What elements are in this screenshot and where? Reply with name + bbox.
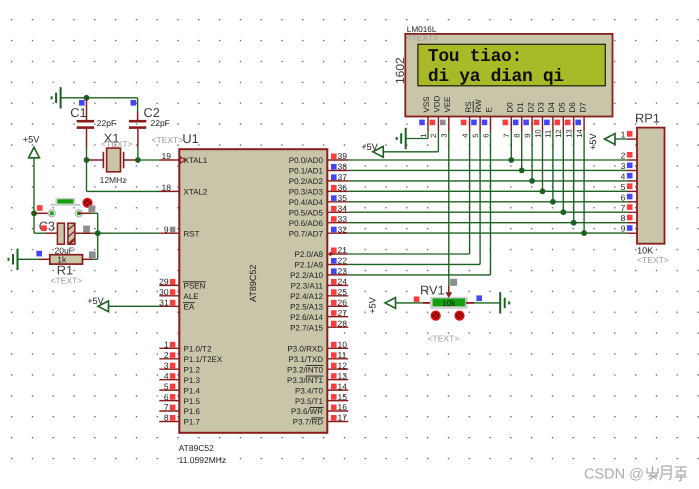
svg-text:E: E — [485, 107, 494, 112]
svg-text:P2.5/A13: P2.5/A13 — [290, 303, 323, 312]
svg-text:RW: RW — [474, 99, 483, 113]
ground (LCD VSS) — [397, 128, 406, 149]
svg-text:P1.0/T2: P1.0/T2 — [184, 345, 213, 354]
U1 pin 39 (P0.0/AD0) stub, number, state square — [327, 151, 348, 161]
svg-text:VEE: VEE — [443, 96, 452, 112]
wire LCD D3 vertical tap — [542, 132, 544, 192]
wire LCD D6 vertical tap — [573, 132, 575, 223]
U1 pin name RST — [184, 229, 200, 238]
junction node D7 — [581, 230, 587, 236]
button actuator symbol — [83, 199, 91, 207]
U1 pin name P1.4 — [184, 386, 201, 395]
svg-text:EA: EA — [184, 303, 195, 312]
C2 state square — [131, 100, 137, 106]
U1 pin name P2.4/A12 — [290, 292, 323, 301]
RP1 reference label — [635, 111, 660, 126]
U1 pin 10 (P3.0/RXD) stub, number, state square — [327, 340, 348, 350]
svg-text:P1.3: P1.3 — [184, 376, 201, 385]
svg-text:XTAL2: XTAL2 — [184, 188, 208, 197]
svg-text:4: 4 — [164, 371, 169, 381]
C1 top lead — [86, 98, 88, 120]
U1 pin 38 (P0.1/AD1) stub, number, state square — [327, 162, 348, 172]
RV1 left lead and state square — [396, 296, 430, 303]
svg-text:ALE: ALE — [184, 292, 199, 301]
RP1 pin 1 stub, number, state square — [621, 130, 637, 140]
U1 pin 25 (P2.4/A12) stub, number, state square — [327, 287, 348, 297]
junction node D0 — [508, 157, 514, 163]
U1 pin name P0.7/AD7 — [289, 229, 324, 238]
RV1 reference label — [420, 283, 445, 298]
LCD pin label E — [485, 107, 494, 112]
svg-text:8: 8 — [164, 413, 169, 423]
wire P0.1 row: U1 pin 38 to RP1 pin 3 — [348, 169, 627, 171]
U1 pin name P3.4/T0 — [295, 386, 324, 395]
svg-text:13: 13 — [338, 371, 348, 381]
U1 pin 15 (P3.5/T1) stub, number, state square — [327, 392, 348, 402]
microcontroller U1 AT89C52 body — [179, 149, 327, 433]
LCD reference 1602 rotated — [393, 57, 407, 84]
C3 left lead — [46, 232, 57, 234]
svg-text:di ya dian qi: di ya dian qi — [428, 67, 564, 87]
svg-text:16: 16 — [338, 402, 348, 412]
svg-text:2: 2 — [164, 350, 169, 360]
U1 pin name P3.0/RXD — [287, 345, 323, 354]
LCD pin label D1 — [516, 102, 525, 113]
RP1 pin 2 stub, number, state square — [621, 151, 637, 161]
svg-text:6: 6 — [164, 392, 169, 402]
RP1 pin 7 stub, number, state square — [621, 203, 637, 213]
svg-text:17: 17 — [338, 413, 348, 423]
svg-text:29: 29 — [159, 277, 169, 287]
svg-text:P2.3/A11: P2.3/A11 — [291, 282, 324, 291]
svg-text:23: 23 — [338, 266, 348, 276]
svg-text:9: 9 — [621, 224, 626, 234]
wire LCD VDD to +5V — [383, 132, 438, 152]
svg-text:1: 1 — [164, 340, 169, 350]
U1 pin 29 (PSEN) stub, number, state square — [159, 277, 179, 287]
svg-text:RS: RS — [464, 101, 473, 112]
U1 pin 35 (P0.4/AD4) stub, number, state square — [327, 193, 348, 203]
svg-text:P3.5/T1: P3.5/T1 — [295, 397, 324, 406]
svg-text:+5V: +5V — [588, 133, 598, 150]
svg-text:P2.2/A10: P2.2/A10 — [290, 271, 323, 280]
U1 pin name P0.2/AD2 — [289, 177, 324, 186]
wire LCD D1 vertical tap — [521, 132, 523, 171]
RV1 hidden text label — [428, 333, 460, 343]
svg-text:22: 22 — [338, 256, 348, 266]
svg-text:3: 3 — [440, 134, 449, 138]
capacitor C2 — [129, 120, 146, 129]
LCD pin 11 (D4) stub, number, state square — [544, 117, 553, 138]
C2 bottom lead — [137, 129, 139, 160]
svg-text:P2.0/A8: P2.0/A8 — [295, 250, 324, 259]
LCD pin 9 (D2) stub, number, state square — [523, 117, 532, 138]
U1 pin 3 (P1.2) stub, number, state square — [159, 360, 179, 370]
U1 pin 32 (P0.7/AD7) stub, number, state square — [327, 224, 348, 234]
svg-text:15: 15 — [338, 392, 348, 402]
U1 pin name P3.3/INT1 — [287, 376, 324, 385]
LCD hidden text label — [407, 32, 439, 42]
LCD pin 5 (RW) stub, number, state square — [471, 117, 480, 138]
svg-text:4: 4 — [460, 134, 469, 138]
wire P0.4 row: U1 pin 35 to RP1 pin 6 — [348, 201, 627, 203]
LCD pin 2 (VDD) stub, number, state square — [429, 117, 438, 138]
LCD pin label RW — [474, 99, 483, 113]
RV1 wiper arrow and state square — [445, 279, 457, 298]
U1 pin 36 (P0.3/AD3) stub, number, state square — [327, 183, 348, 193]
U1 pin name EA — [183, 303, 195, 312]
svg-text:9: 9 — [164, 224, 169, 234]
svg-text:2: 2 — [429, 134, 438, 138]
U1 pin name P3.1/TXD — [288, 355, 323, 364]
svg-text:+5V: +5V — [361, 142, 378, 152]
svg-text:1: 1 — [419, 134, 428, 138]
svg-text:4: 4 — [621, 171, 626, 181]
U1 pin 6 (P1.5) stub, number, state square — [159, 392, 179, 402]
U1 pin name P2.6/A14 — [290, 313, 323, 322]
U1 pin name P1.3 — [184, 376, 201, 385]
svg-text:24: 24 — [338, 277, 348, 287]
U1 pin name P1.5 — [184, 397, 201, 406]
svg-text:27: 27 — [338, 308, 348, 318]
svg-text:<TEXT>: <TEXT> — [637, 255, 669, 265]
power +5V (reset circuit) — [23, 134, 40, 158]
svg-text:10: 10 — [533, 129, 542, 137]
LCD pin 14 (D7) stub, number, state square — [575, 117, 584, 138]
svg-text:22pF: 22pF — [151, 118, 170, 128]
svg-text:P3.1/TXD: P3.1/TXD — [288, 355, 323, 364]
svg-text:>: > — [123, 175, 128, 185]
wire P0.2 row: U1 pin 37 to RP1 pin 4 — [348, 180, 627, 182]
R1 reference label — [57, 262, 73, 277]
svg-text:P2.1/A9: P2.1/A9 — [295, 261, 324, 270]
svg-text:1602: 1602 — [393, 57, 407, 84]
wire P0.0 row: U1 pin 39 to RP1 pin 2 — [348, 159, 627, 161]
svg-text:P1.2: P1.2 — [184, 365, 201, 374]
C1 bottom lead — [86, 129, 88, 160]
U1 pin name P3.6/WR — [291, 407, 324, 416]
svg-text:14: 14 — [575, 129, 584, 137]
svg-text:5: 5 — [471, 134, 480, 138]
LCD pin label D5 — [558, 102, 567, 113]
svg-text:<TEXT>: <TEXT> — [101, 139, 133, 149]
wire P2.2 row: U1 pin 23 to LCD E — [348, 132, 490, 275]
junction node D2 — [529, 178, 535, 184]
U1 pin name P0.3/AD3 — [289, 188, 324, 197]
wire EA to +5V — [109, 305, 161, 307]
LCD pin label D7 — [578, 102, 587, 113]
svg-text:+5V: +5V — [87, 296, 104, 306]
wire LCD D4 vertical tap — [552, 132, 554, 202]
svg-text:11: 11 — [338, 350, 347, 360]
svg-text:P2.4/A12: P2.4/A12 — [290, 292, 323, 301]
svg-text:D4: D4 — [547, 102, 556, 113]
wire P2.1 row: U1 pin 22 to LCD RW — [348, 132, 480, 265]
svg-text:25: 25 — [338, 287, 348, 297]
svg-text:P1.6: P1.6 — [184, 407, 201, 416]
U1 pin name P2.1/A9 — [295, 261, 324, 270]
svg-text:30: 30 — [159, 287, 169, 297]
X1 right lead — [124, 159, 138, 161]
C3 state square — [41, 225, 47, 231]
LCD pin 7 (D0) stub, number, state square — [502, 117, 511, 138]
wire P0.6 row: U1 pin 33 to RP1 pin 8 — [348, 222, 627, 224]
U1 pin 14 (P3.4/T0) stub, number, state square — [327, 381, 348, 391]
wire button/C3 right vertical to RST and R1 — [97, 213, 99, 259]
overline on RW label — [472, 101, 474, 113]
svg-text:2: 2 — [621, 151, 626, 161]
svg-text:P1.7: P1.7 — [184, 418, 201, 427]
U1 pin name XTAL2 — [184, 188, 208, 197]
capacitor C3 (electrolytic) — [57, 223, 75, 244]
U1 pin name P2.0/A8 — [295, 250, 324, 259]
U1 pin 13 (P3.3/INT1) stub, number, state square — [327, 371, 348, 381]
ground (RV1 right) — [500, 292, 509, 313]
X1 reference label — [104, 131, 120, 146]
U1 pin 26 (P2.5/A13) stub, number, state square — [327, 298, 348, 308]
svg-text:C1: C1 — [70, 105, 86, 120]
U1 pin 30 (ALE) stub, number, state square — [159, 287, 179, 297]
svg-text:Tou tiao:: Tou tiao: — [428, 47, 522, 67]
svg-text:P3.6/WR: P3.6/WR — [291, 407, 323, 416]
wire P2.0 row: U1 pin 21 to LCD RS — [348, 132, 469, 255]
svg-text:D2: D2 — [526, 102, 535, 113]
wire P0.3 row: U1 pin 36 to RP1 pin 5 — [348, 190, 627, 192]
wire +5V down to button and C3 — [34, 158, 46, 233]
svg-text:D3: D3 — [537, 102, 546, 113]
RP1 value 10K — [637, 246, 653, 256]
RV1 right lead and state square — [466, 295, 500, 303]
wire LCD D0 vertical tap — [510, 132, 512, 161]
resistor pack RP1 body — [637, 128, 665, 244]
svg-text:D1: D1 — [516, 102, 525, 113]
LCD pin 1 (VSS) stub, number, state square — [419, 117, 428, 138]
U1 pin name P0.6/AD6 — [289, 219, 324, 228]
potentiometer RV1 — [430, 297, 468, 309]
LCD pin label D0 — [506, 102, 515, 113]
U1 pin name P2.5/A13 — [290, 303, 323, 312]
svg-text:P2.6/A14: P2.6/A14 — [290, 313, 323, 322]
U1 pin name P1.1/T2EX — [184, 355, 223, 364]
LCD pin 4 (RS) stub, number, state square — [460, 117, 469, 138]
svg-text:5: 5 — [164, 381, 169, 391]
wire LCD VSS to ground — [406, 132, 428, 139]
U1 pin 23 (P2.2/A10) stub, number, state square — [327, 266, 348, 276]
svg-text:P0.7/AD7: P0.7/AD7 — [289, 229, 324, 238]
LCD pin label VEE — [443, 96, 452, 112]
U1 pin 2 (P1.1/T2EX) stub, number, state square — [159, 350, 179, 360]
wire LCD D7 vertical tap — [583, 132, 585, 234]
push button (reset) — [48, 198, 82, 217]
svg-text:P3.4/T0: P3.4/T0 — [295, 386, 324, 395]
R1 right lead and gray square — [83, 251, 98, 259]
U1 pin name P3.7/RD — [293, 418, 324, 427]
svg-text:AT89C52: AT89C52 — [248, 265, 258, 302]
svg-text:U1: U1 — [182, 131, 198, 146]
svg-text:XTAL1: XTAL1 — [184, 156, 208, 165]
LCD pin label D6 — [568, 102, 577, 113]
svg-text:35: 35 — [338, 193, 348, 203]
U1 pin name P2.3/A11 — [291, 282, 324, 291]
U1 pin name P1.7 — [184, 418, 201, 427]
svg-text:7: 7 — [164, 402, 169, 412]
crystal X1 — [103, 148, 123, 172]
RP1 pin 5 stub, number, state square — [621, 182, 637, 192]
svg-text:VDD: VDD — [433, 95, 442, 112]
U1 pin name PSEN — [183, 282, 206, 291]
capacitor C1 — [77, 120, 94, 129]
svg-text:26: 26 — [338, 298, 348, 308]
C2 reference label — [144, 105, 160, 120]
watermark CSDN — [584, 466, 687, 483]
U1 pin 27 (P2.6/A14) stub, number, state square — [327, 308, 348, 318]
power +5V (RV1 left) rotated label — [367, 296, 395, 313]
svg-text:P0.3/AD3: P0.3/AD3 — [289, 188, 324, 197]
node button left junction — [31, 210, 37, 216]
U1 pin name P0.5/AD5 — [289, 209, 324, 218]
U1 pin name P1.2 — [184, 365, 201, 374]
svg-text:11.0592MHz: 11.0592MHz — [179, 455, 227, 465]
U1 pin 12 (P3.2/INT0) stub, number, state square — [327, 360, 348, 370]
U1 pin 33 (P0.6/AD6) stub, number, state square — [327, 214, 348, 224]
svg-text:P0.6/AD6: P0.6/AD6 — [289, 219, 324, 228]
LCD part name LM016L — [407, 25, 437, 34]
svg-text:P1.1/T2EX: P1.1/T2EX — [184, 355, 223, 364]
RP1 pin 3 stub, number, state square — [621, 161, 637, 171]
U1 pin name P2.2/A10 — [290, 271, 323, 280]
svg-text:P3.0/RXD: P3.0/RXD — [287, 345, 323, 354]
U1 pin name P0.0/AD0 — [289, 156, 324, 165]
svg-text:+5V: +5V — [367, 296, 377, 313]
button right lead — [79, 212, 98, 214]
svg-text:31: 31 — [159, 298, 169, 308]
LCD LCD1 LM016L body — [405, 34, 612, 117]
wire LCD D2 vertical tap — [531, 132, 533, 181]
svg-text:8: 8 — [621, 213, 626, 223]
junction node D5 — [560, 209, 566, 215]
svg-text:32: 32 — [338, 224, 348, 234]
svg-text:38: 38 — [338, 162, 348, 172]
RP1 pin 9 stub, number, state square — [621, 224, 637, 234]
svg-text:P1.5: P1.5 — [184, 397, 201, 406]
power +5V (LCD VDD) — [361, 142, 383, 157]
U1 pin 22 (P2.1/A9) stub, number, state square — [327, 256, 348, 266]
wire RP1 pin1 to +5V — [615, 138, 627, 140]
wire ground rail above C1 C2 — [61, 97, 138, 99]
svg-text:PSEN: PSEN — [184, 282, 206, 291]
svg-text:P0.2/AD2: P0.2/AD2 — [289, 177, 324, 186]
U1 part name text below chip — [179, 443, 215, 453]
C3 right lead and gray square — [75, 226, 98, 234]
svg-text:10k: 10k — [442, 298, 456, 308]
svg-text:8: 8 — [513, 134, 522, 138]
node B (XTAL1 net) — [135, 157, 141, 163]
wire P0.7 row: U1 pin 32 to RP1 pin 9 — [348, 232, 627, 234]
X1 value 12MHz — [100, 175, 128, 185]
svg-text:10: 10 — [338, 340, 348, 350]
wire node A down and right to U1 XTAL2 — [87, 160, 161, 191]
U1 pin 5 (P1.4) stub, number, state square — [159, 381, 179, 391]
U1 pin name XTAL1 — [184, 156, 208, 165]
svg-text:19: 19 — [162, 151, 172, 161]
svg-text:3: 3 — [164, 360, 169, 370]
RP1 pin 6 stub, number, state square — [621, 192, 637, 202]
RP1 pin 4 stub, number, state square — [621, 171, 637, 181]
svg-text:<TEXT>: <TEXT> — [407, 32, 439, 42]
node A (XTAL2 net) — [84, 157, 90, 163]
C3 reference label — [39, 219, 55, 234]
U1 pin 21 bus-entry arrow — [330, 252, 335, 257]
svg-text:RV1: RV1 — [420, 283, 445, 298]
U1 pin 31 (EA) stub, number, state square — [159, 298, 179, 308]
U1 hidden text label — [152, 135, 184, 145]
U1 pin 9 (RST) stub, number, state square — [159, 224, 179, 234]
RV1 value 10k — [442, 298, 456, 308]
U1 pin 17 (P3.7/RD) stub, number, state square — [327, 413, 348, 423]
U1 pin 16 (P3.6/WR) stub, number, state square — [327, 402, 348, 412]
svg-text:12: 12 — [554, 129, 563, 137]
junction node D3 — [540, 188, 546, 194]
svg-text:RP1: RP1 — [635, 111, 660, 126]
wire node B to U1 XTAL1 — [138, 159, 160, 161]
U1 pin 24 (P2.3/A11) stub, number, state square — [327, 277, 348, 287]
U1 crystal frequency text below chip — [179, 455, 227, 465]
LCD pin 6 (E) stub, number, state square — [481, 117, 490, 138]
svg-text:11: 11 — [544, 130, 553, 138]
C1 reference label — [70, 105, 86, 120]
svg-text:AT89C52: AT89C52 — [179, 443, 215, 453]
U1 pin 28 (P2.7/A15) stub, number, state square — [327, 318, 348, 328]
ground (R1 left) — [9, 249, 18, 270]
svg-text:6: 6 — [621, 192, 626, 202]
svg-text:P0.0/AD0: P0.0/AD0 — [289, 156, 324, 165]
svg-text:6: 6 — [481, 134, 490, 138]
wire RST to U1 pin 9 — [98, 232, 160, 234]
LCD pin 12 (D5) stub, number, state square — [554, 117, 563, 138]
wire P0.5 row: U1 pin 34 to RP1 pin 7 — [348, 211, 627, 213]
ground (top left) — [52, 87, 61, 108]
R1 left lead and state square — [18, 251, 49, 259]
power +5V (EA pin) — [87, 296, 108, 312]
LCD pin label D4 — [547, 102, 556, 113]
svg-text:RST: RST — [184, 229, 200, 238]
svg-text:P1.4: P1.4 — [184, 386, 201, 395]
U1 reference label — [182, 131, 198, 146]
svg-text:5: 5 — [621, 182, 626, 192]
resistor R1 — [50, 255, 83, 264]
svg-text:P3.2/INT0: P3.2/INT0 — [287, 365, 324, 374]
U1 pin name ALE — [184, 292, 199, 301]
svg-text:P0.4/AD4: P0.4/AD4 — [289, 198, 324, 207]
LCD pin label RS — [464, 101, 473, 112]
U1 pin name P0.4/AD4 — [289, 198, 324, 207]
R1 value 1k — [57, 255, 67, 265]
junction node D1 — [519, 168, 525, 174]
svg-text:D5: D5 — [558, 102, 567, 113]
RP1 hidden text label — [637, 255, 669, 265]
node C1 top junction — [84, 95, 90, 101]
svg-text:33: 33 — [338, 214, 348, 224]
svg-text:7: 7 — [621, 203, 626, 213]
svg-text:<TEXT>: <TEXT> — [152, 135, 184, 145]
U1 pin 7 (P1.6) stub, number, state square — [159, 402, 179, 412]
svg-text:34: 34 — [338, 204, 348, 214]
node RST junction — [95, 230, 101, 236]
svg-text:14: 14 — [338, 381, 348, 391]
U1 pin 34 (P0.5/AD5) stub, number, state square — [327, 204, 348, 214]
svg-text:P3.7/RD: P3.7/RD — [293, 418, 323, 427]
U1 pin name P0.1/AD1 — [289, 167, 324, 176]
